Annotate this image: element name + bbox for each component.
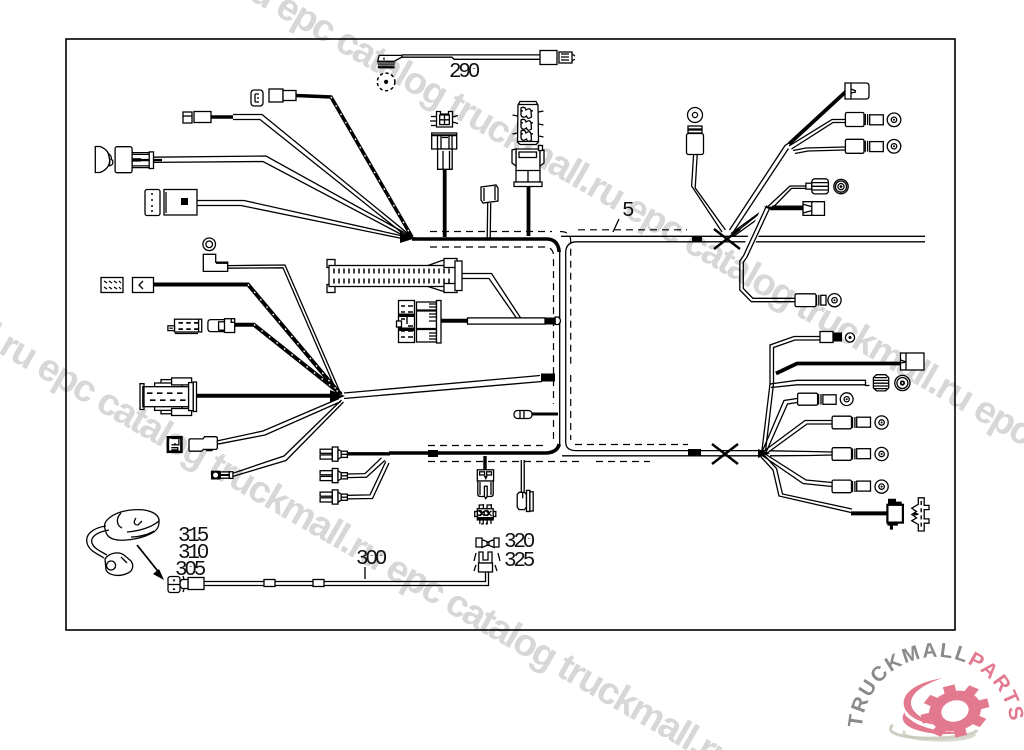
hub2 wedge xyxy=(330,390,345,402)
small connector (C) drop xyxy=(481,185,498,238)
hanging connector H1 xyxy=(477,456,493,499)
connector with thick wire to hub2 xyxy=(208,319,341,394)
harness bottom-left arm (thick) xyxy=(389,444,559,453)
antenna pod xyxy=(105,510,160,541)
watermark line 2 xyxy=(0,243,1024,750)
chevron box with thick wire to hub2 xyxy=(133,278,342,396)
connector T4 hex with ring xyxy=(731,179,848,236)
ring above T6 xyxy=(688,108,703,123)
branch B2 thick lead connector xyxy=(776,353,924,374)
harness trunk top-right arm (double line) xyxy=(561,235,925,237)
hatch ticks on taped wires xyxy=(248,97,412,395)
branch B8 bottom thick lead connector and nut xyxy=(761,456,929,532)
MLK big connector with thick wire xyxy=(140,378,338,416)
logo swirl crescents xyxy=(903,678,963,734)
big connector (B) drop xyxy=(512,102,544,237)
tiny inline connector on trunk xyxy=(514,411,558,419)
X junction top right xyxy=(714,229,740,249)
connector (e) with wire xyxy=(145,190,410,240)
L-connector with twin wire to hub2 xyxy=(203,254,340,393)
branch B5 cylinder with ring xyxy=(764,416,888,454)
harness trunk top-left arm (thick) xyxy=(412,239,559,252)
bulb plug P1 with thick lead xyxy=(320,447,347,461)
branch B1 riser to connector a xyxy=(762,332,855,452)
symbol 325 plug xyxy=(474,552,500,572)
small connector with twin wire to hub2 xyxy=(211,400,344,480)
dashed outline bottom arm xyxy=(428,445,547,447)
node on top-right trunk xyxy=(692,236,702,242)
grid box small xyxy=(101,278,123,293)
connector with black lead (b) xyxy=(269,89,412,237)
ring small above L-connector xyxy=(203,238,216,251)
harness vertical trunk (double line) xyxy=(559,250,561,447)
connector 305 xyxy=(168,577,180,593)
item 290 antenna xyxy=(377,55,540,69)
fan wedge bottom right xyxy=(758,449,770,458)
connector pair (c) with wire xyxy=(183,112,412,239)
harness bottom-right arm (double line) xyxy=(566,442,764,451)
B lower body xyxy=(516,149,540,182)
horn speaker (d) with twin wire xyxy=(95,147,410,239)
logo swirl shadow xyxy=(890,725,977,740)
connector T1 with thick lead xyxy=(789,83,869,144)
branch B6 cylinder with ring xyxy=(770,447,888,460)
connector at 290 lead end xyxy=(540,51,575,65)
connector left end of wire 300 xyxy=(180,576,204,592)
grommet G below trunk xyxy=(517,460,533,512)
hub wedge top xyxy=(400,232,416,243)
connector T3 cylinder with ring xyxy=(793,139,901,153)
bulb plug P3 with twin wire xyxy=(320,490,347,504)
connector T2 cylinder with ring xyxy=(789,113,901,150)
relay modules pair xyxy=(397,301,561,344)
antenna cable and connector xyxy=(87,526,133,575)
coil connector (A) drop xyxy=(430,112,458,238)
wire 300 xyxy=(203,572,489,587)
svg-text:325: 325 xyxy=(504,550,535,573)
bulb plug P2 with twin wire xyxy=(320,469,347,483)
dashed outline top arm xyxy=(430,231,552,233)
bundle X1 to upper connectors xyxy=(730,142,791,233)
plug below hub2 with twin wire xyxy=(168,399,341,452)
branch B7 cylinder with ring xyxy=(763,455,888,494)
node on bottom trunk xyxy=(428,450,438,457)
dashed outline top-right arm xyxy=(578,229,687,231)
branch B4 cylinder with ring xyxy=(762,393,853,454)
arrow to 305 xyxy=(137,545,164,580)
hanging connector H2 xyxy=(475,504,496,525)
big multipin connector xyxy=(327,259,521,322)
symbol 320 bowtie xyxy=(476,538,499,548)
X junction bottom right xyxy=(712,444,738,464)
logo gear xyxy=(915,677,994,744)
hub2 mid trunk to vertical trunk xyxy=(344,374,555,399)
connector T5 with thick lead xyxy=(731,202,825,236)
connector with dashed body xyxy=(168,319,202,333)
branch B3 hex connector with target ring xyxy=(770,375,910,391)
branch to T7 cylinder below trunk (crosses trunk with overpass) xyxy=(740,206,841,307)
connector D-ring top-left xyxy=(251,90,263,106)
vertical cylinder connector T6 xyxy=(687,126,726,232)
frame border xyxy=(66,39,955,630)
zero dot masks xyxy=(189,69,532,572)
item 290 grommet circle (dashed) xyxy=(377,73,395,91)
